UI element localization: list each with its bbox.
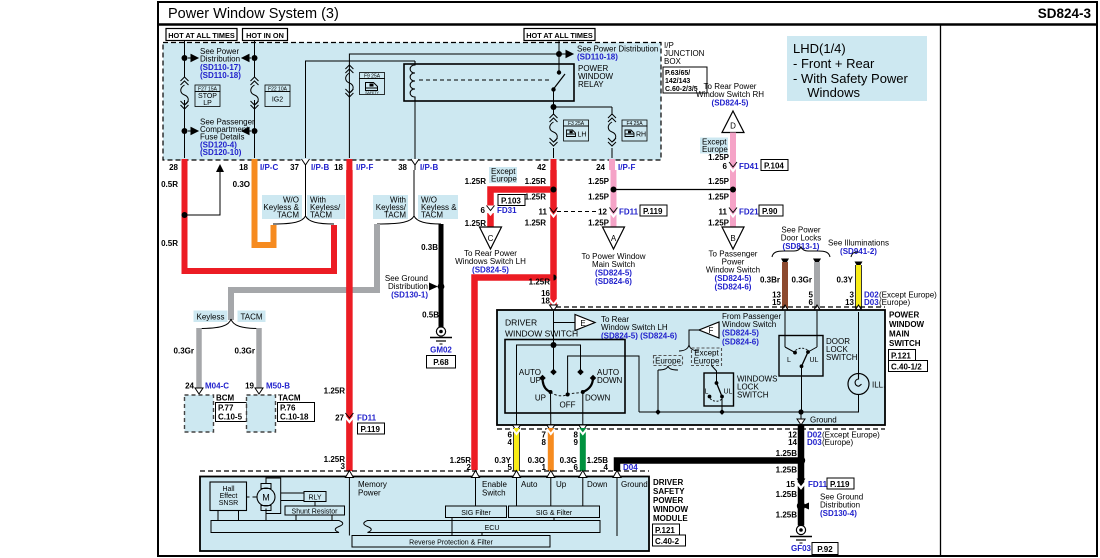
red branch to C <box>491 190 554 206</box>
triangle A <box>603 227 625 249</box>
node wire1 lower <box>182 128 188 134</box>
svg-text:MODULE: MODULE <box>653 514 688 523</box>
dashed link red to pink <box>557 211 597 213</box>
svg-text:Keyless: Keyless <box>196 313 224 322</box>
svg-text:0.5R: 0.5R <box>161 180 178 189</box>
fuse F4 box RH <box>622 120 647 141</box>
svg-text:0.3Y: 0.3Y <box>837 276 854 285</box>
svg-text:1.25P: 1.25P <box>588 193 610 202</box>
gray wire 0.3Gr option <box>231 224 377 320</box>
module entry arrows <box>345 471 621 478</box>
svg-text:ILL.: ILL. <box>872 381 885 390</box>
see illuminations <box>828 239 889 257</box>
pin 24 I/P-F pink stub <box>609 159 615 170</box>
fuse F3 symbol <box>550 114 558 146</box>
yellow wire 0.3Y <box>855 262 863 313</box>
fuse F22 symbol <box>251 77 259 109</box>
svg-text:I/P-C: I/P-C <box>260 163 278 172</box>
svg-text:0.3Gr: 0.3Gr <box>235 347 255 356</box>
Except Europe dashed label <box>692 348 722 366</box>
TACM highlight <box>238 311 266 323</box>
LHD info box <box>787 36 927 101</box>
svg-text:0.3Gr: 0.3Gr <box>792 276 812 285</box>
svg-text:WINDOW SWITCH: WINDOW SWITCH <box>505 329 578 339</box>
arrow left at wire2 lower <box>242 128 251 135</box>
svg-text:M04-C: M04-C <box>205 382 229 391</box>
HOT IN ON box <box>243 29 288 41</box>
dashed line below main switch <box>497 428 885 430</box>
svg-text:1.25B: 1.25B <box>776 449 798 458</box>
arrow to node <box>429 283 438 291</box>
inner rotary switch box <box>505 340 625 414</box>
node pink A <box>611 187 617 193</box>
svg-text:1.25P: 1.25P <box>708 177 730 186</box>
svg-text:(SD941-2): (SD941-2) <box>840 247 877 256</box>
internal wires module <box>218 478 617 537</box>
svg-text:6: 6 <box>481 206 486 215</box>
svg-text:0.3Br: 0.3Br <box>760 276 780 285</box>
svg-text:0.5B: 0.5B <box>422 311 439 320</box>
svg-text:HOT AT ALL TIMES: HOT AT ALL TIMES <box>168 31 235 40</box>
windows lock switch contacts <box>705 381 733 412</box>
text windows lock switch <box>737 375 777 400</box>
svg-text:1.25P: 1.25P <box>708 153 730 162</box>
connector FD11 pink <box>598 205 667 217</box>
svg-text:ECU: ECU <box>485 525 500 532</box>
pin 18 I/P-F red stub <box>346 159 352 170</box>
svg-text:POWER: POWER <box>889 311 919 320</box>
BCM dashed box <box>185 395 214 432</box>
svg-text:9: 9 <box>574 438 579 447</box>
svg-text:F: F <box>709 326 714 335</box>
text to rear power windows switch LH <box>455 249 526 275</box>
svg-text:DOWN: DOWN <box>597 376 623 385</box>
door lock to ground <box>801 366 803 412</box>
orange wire up <box>547 425 555 471</box>
RLY box <box>281 492 326 507</box>
svg-text:TACM: TACM <box>278 394 301 403</box>
svg-text:P.119: P.119 <box>361 425 381 434</box>
I/P JUNCTION BOX label <box>664 41 705 66</box>
D02 D03 labels bottom <box>807 431 880 448</box>
svg-text:M: M <box>262 493 270 503</box>
text to rear power window switch RH <box>696 82 764 108</box>
HOT AT ALL TIMES box 2 <box>524 29 595 41</box>
svg-text:38: 38 <box>398 163 407 172</box>
svg-text:(SD824-5): (SD824-5) <box>472 266 509 275</box>
triangle E <box>575 315 595 331</box>
rotary labels <box>519 368 623 410</box>
svg-text:C: C <box>488 234 494 243</box>
svg-text:I/P-B: I/P-B <box>420 163 438 172</box>
svg-text:STOP: STOP <box>198 93 217 100</box>
see ground distribution SD130-1 <box>385 274 428 300</box>
black link wire module ground to main ground <box>617 461 801 472</box>
svg-text:(SD824-5): (SD824-5) <box>722 329 759 338</box>
wire line B coil feed from pin 37 <box>306 61 416 158</box>
svg-text:SD824-3: SD824-3 <box>1038 6 1092 21</box>
svg-text:24: 24 <box>185 382 194 391</box>
svg-text:B: B <box>730 234 735 243</box>
svg-text:TACM: TACM <box>384 211 406 220</box>
rotary contacts <box>550 369 557 376</box>
text see power distribution (SD110-18) <box>577 45 658 62</box>
off wire <box>568 356 639 412</box>
brown wire 0.3Br <box>781 259 789 313</box>
svg-text:1.25B: 1.25B <box>776 490 798 499</box>
bus junction diamonds <box>655 409 661 415</box>
windows lock switch box <box>704 373 734 406</box>
option label W/O Keyless & TACM (4) <box>418 195 458 220</box>
Europe dashed label <box>654 356 683 366</box>
shunt resistor box <box>285 506 345 515</box>
wire pin38 down to split <box>413 170 415 217</box>
svg-text:DRIVER: DRIVER <box>653 478 683 487</box>
fuse F27 box <box>195 85 220 107</box>
svg-text:24: 24 <box>596 163 605 172</box>
text to passenger power window switch <box>706 250 760 292</box>
svg-text:GF03: GF03 <box>791 544 812 553</box>
svg-text:HOT IN ON: HOT IN ON <box>246 31 284 40</box>
svg-text:1.25R: 1.25R <box>324 387 346 396</box>
ecu left box torn <box>211 521 343 533</box>
pin 37 I/P-B <box>302 159 310 165</box>
pink wire D column <box>730 133 736 228</box>
text to power window main switch <box>581 252 645 286</box>
connector M50-B <box>255 388 263 394</box>
svg-text:POWER: POWER <box>653 496 683 505</box>
brace door locks <box>772 247 830 257</box>
europe branch wire <box>658 366 678 412</box>
up/down drop wires <box>550 392 552 425</box>
black ground wire from main switch <box>798 425 805 526</box>
svg-text:(SD110-18): (SD110-18) <box>577 53 618 62</box>
svg-text:A: A <box>611 234 617 243</box>
svg-text:0.3Gr: 0.3Gr <box>174 347 194 356</box>
svg-text:UL: UL <box>724 389 733 396</box>
svg-text:P.121: P.121 <box>891 351 911 360</box>
svg-text:SAFETY: SAFETY <box>653 487 685 496</box>
driver safety power window module box <box>200 477 649 552</box>
fuse F9 box with safety window icon <box>360 73 385 95</box>
connector FD31 <box>481 195 525 216</box>
split brace pin37 <box>273 216 334 224</box>
svg-text:1.25R: 1.25R <box>465 177 487 186</box>
svg-text:(SD110-18): (SD110-18) <box>200 71 241 80</box>
svg-text:FD31: FD31 <box>497 206 517 215</box>
svg-text:Up: Up <box>556 480 567 489</box>
svg-text:42: 42 <box>537 163 546 172</box>
svg-text:Hall: Hall <box>222 486 235 493</box>
svg-text:1.25R: 1.25R <box>525 177 547 186</box>
wire relay to F3 to pin 42 <box>553 107 555 115</box>
svg-text:6: 6 <box>723 162 728 171</box>
svg-text:RELAY: RELAY <box>578 80 604 89</box>
ecu box <box>364 521 600 533</box>
svg-text:P.76: P.76 <box>280 404 296 413</box>
svg-text:C.10-18: C.10-18 <box>280 413 309 422</box>
sig filter box <box>446 506 507 518</box>
entry arrows brown gray yellow <box>781 305 863 312</box>
svg-text:C.10-5: C.10-5 <box>218 413 243 422</box>
svg-text:UP: UP <box>530 376 541 385</box>
svg-text:(SD120-10): (SD120-10) <box>200 148 242 157</box>
hall effect snsr box <box>210 482 247 511</box>
svg-text:Europe: Europe <box>491 175 517 184</box>
brace illuminations <box>851 252 859 257</box>
relay dashed link <box>419 79 549 81</box>
svg-text:142/143: 142/143 <box>665 78 690 85</box>
except europe branch wire <box>712 366 717 383</box>
svg-text:SWITCH: SWITCH <box>889 339 921 348</box>
connector 11 on red 42 <box>539 208 558 217</box>
svg-text:FD11: FD11 <box>357 414 377 423</box>
svg-text:(SD824-6): (SD824-6) <box>595 277 632 286</box>
svg-text:I/P-B: I/P-B <box>311 163 329 172</box>
svg-text:SNSR: SNSR <box>219 500 238 507</box>
option label With Keyless/TACM (3) <box>373 195 408 220</box>
door lock switch box <box>779 336 823 377</box>
svg-text:P.90: P.90 <box>762 207 778 216</box>
wire from HOT IN ON through fuse F22 <box>254 41 256 78</box>
label DRIVER WINDOW SWITCH <box>505 318 578 339</box>
svg-text:Power Window System (3): Power Window System (3) <box>168 6 339 22</box>
svg-text:P.119: P.119 <box>830 480 850 489</box>
wire pin37 down to split <box>305 170 307 217</box>
lamp wires <box>858 312 860 374</box>
svg-text:P.119: P.119 <box>643 207 663 216</box>
connector FD41 <box>723 160 788 172</box>
node wire2 lower <box>252 128 258 134</box>
svg-text:- Front + Rear: - Front + Rear <box>793 56 875 71</box>
wire from HOT1 through fuse F27 <box>184 41 186 78</box>
rotary dashed arc <box>551 392 583 396</box>
ILL lamp <box>848 374 885 395</box>
svg-text:0.3O: 0.3O <box>233 180 250 189</box>
arrow see power distribution <box>188 55 198 62</box>
text from passenger window switch <box>722 312 781 347</box>
svg-text:15: 15 <box>786 480 795 489</box>
svg-text:Reverse Protection & Filter: Reverse Protection & Filter <box>409 539 493 546</box>
node wire2 top <box>252 55 258 61</box>
svg-text:27: 27 <box>335 414 344 423</box>
svg-text:(SD824-6): (SD824-6) <box>722 338 759 347</box>
svg-text:P.104: P.104 <box>764 161 784 170</box>
svg-text:SAFETY: SAFETY <box>365 91 379 95</box>
gray wire keyless branch <box>196 328 202 391</box>
svg-text:(SD130-4): (SD130-4) <box>820 509 857 518</box>
arrow see power distribution right <box>562 51 573 58</box>
relay switch <box>551 54 565 107</box>
svg-text:37: 37 <box>290 163 299 172</box>
svg-text:13: 13 <box>845 298 854 307</box>
svg-text:D: D <box>730 122 736 131</box>
module pin labels <box>358 480 648 498</box>
svg-text:Switch: Switch <box>482 489 506 498</box>
Keyless highlight <box>194 311 228 323</box>
svg-text:19: 19 <box>245 382 254 391</box>
svg-text:L: L <box>787 357 791 364</box>
svg-text:1.25R: 1.25R <box>525 219 547 228</box>
svg-text:Down: Down <box>587 480 607 489</box>
svg-text:P.92: P.92 <box>817 545 833 554</box>
svg-text:UL: UL <box>810 357 819 364</box>
connector into main switch <box>550 300 558 305</box>
svg-text:SIG & Filter: SIG & Filter <box>536 510 573 517</box>
split brace keyless/TACM <box>199 319 259 329</box>
connector M04-C <box>195 388 203 394</box>
dashed line above module <box>200 470 649 472</box>
pin 42 red stub <box>551 159 557 170</box>
svg-text:D03: D03 <box>864 298 879 307</box>
pin 28 red stub <box>182 159 188 170</box>
red branch to enable switch <box>475 278 554 471</box>
connector FD11 black 15 <box>786 478 854 489</box>
I/P junction box (dashed) <box>163 43 661 161</box>
gray wire TACM branch <box>256 328 262 391</box>
ground drop from bus <box>797 412 837 425</box>
option label With Keyless/TACM (2) <box>307 195 345 220</box>
svg-text:4: 4 <box>508 438 513 447</box>
svg-text:TACM: TACM <box>421 211 443 220</box>
node below relay <box>551 104 557 110</box>
D02 D03 labels <box>864 291 937 308</box>
svg-text:14: 14 <box>788 438 797 447</box>
svg-text:Auto: Auto <box>521 480 538 489</box>
wire red entry to bus and E <box>553 311 555 345</box>
node red 42 top <box>551 187 557 193</box>
svg-text:E: E <box>580 319 585 328</box>
TACM dashed box <box>247 395 276 432</box>
svg-text:Europe: Europe <box>694 357 720 366</box>
title separator line <box>158 23 1097 26</box>
fuse F9 symbol <box>345 65 353 97</box>
red wire 42 column <box>550 170 557 307</box>
svg-text:L: L <box>705 389 709 396</box>
svg-text:TACM: TACM <box>240 313 262 322</box>
text POWER WINDOW RELAY <box>578 64 614 89</box>
svg-text:Ground: Ground <box>810 416 837 425</box>
red segment to triangle C <box>487 213 494 228</box>
door lock wires down <box>784 311 786 347</box>
node red 42 bottom <box>551 275 557 281</box>
wire to fuse F4 <box>554 106 613 108</box>
svg-text:P.77: P.77 <box>218 404 234 413</box>
svg-text:(SD824-5): (SD824-5) <box>712 99 749 108</box>
svg-text:Power: Power <box>358 489 381 498</box>
svg-text:28: 28 <box>169 163 178 172</box>
svg-text:BCM: BCM <box>216 394 235 403</box>
see power door locks <box>781 226 821 252</box>
svg-text:LP: LP <box>203 100 212 107</box>
wire from HOT2 to relay <box>558 41 560 55</box>
svg-text:1.25P: 1.25P <box>588 219 610 228</box>
svg-text:C.40-1/2: C.40-1/2 <box>891 362 922 371</box>
svg-text:1.25B: 1.25B <box>776 466 798 475</box>
inner right divider <box>940 25 942 557</box>
svg-text:FD11: FD11 <box>619 208 639 217</box>
svg-text:1.25P: 1.25P <box>708 219 730 228</box>
svg-text:WINDOW: WINDOW <box>653 505 689 514</box>
motor M <box>247 478 281 514</box>
svg-text:18: 18 <box>541 297 550 306</box>
fuse F3 box LH <box>564 120 589 141</box>
wire coil to pin 38 <box>414 101 416 159</box>
svg-text:0.3B: 0.3B <box>421 243 438 252</box>
pin 38 I/P-B <box>411 159 419 165</box>
fuse F22 box <box>265 85 290 107</box>
rotary top bus <box>517 345 581 425</box>
svg-text:1.25P: 1.25P <box>588 177 610 186</box>
jumper arrow up into I/P box <box>185 170 221 215</box>
svg-text:Ground: Ground <box>621 480 648 489</box>
dashed connector line above main switch <box>556 306 885 308</box>
reverse protection box <box>352 536 550 548</box>
svg-text:RLY: RLY <box>308 494 321 501</box>
svg-text:C.60-2/3/5: C.60-2/3/5 <box>665 86 698 93</box>
POWER WINDOW MAIN SWITCH box <box>497 310 885 425</box>
triangle F <box>699 322 719 338</box>
svg-text:12: 12 <box>598 208 607 217</box>
svg-text:P.103: P.103 <box>501 196 521 205</box>
svg-text:RH: RH <box>636 132 646 139</box>
fuse F4 symbol <box>608 114 616 146</box>
triangle B <box>722 227 744 249</box>
svg-text:1.25R: 1.25R <box>525 193 547 202</box>
node black ground <box>797 456 805 464</box>
link line pink A to pink D <box>614 189 734 191</box>
svg-text:TACM: TACM <box>310 211 332 220</box>
triangle C <box>480 227 502 249</box>
svg-text:DRIVER: DRIVER <box>505 318 537 328</box>
arrow right at lower node <box>188 128 198 135</box>
svg-text:SIG Filter: SIG Filter <box>461 510 491 517</box>
red wire 0.5R from pin 28 <box>185 170 335 271</box>
svg-text:DOWN: DOWN <box>585 394 611 403</box>
svg-text:LHD(1/4): LHD(1/4) <box>793 41 846 56</box>
gray wire 0.3Gr door lock <box>813 259 821 313</box>
orange wire 0.3O from pin 18 <box>255 170 274 245</box>
text see passenger compartment <box>200 118 255 158</box>
node on 0.5R <box>182 212 188 218</box>
svg-text:(Europe): (Europe) <box>879 298 910 307</box>
svg-text:11: 11 <box>539 208 548 217</box>
svg-text:C.40-2: C.40-2 <box>655 537 680 546</box>
svg-text:6: 6 <box>809 298 814 307</box>
svg-text:FD21: FD21 <box>739 208 759 217</box>
svg-text:18: 18 <box>334 163 343 172</box>
svg-text:LH: LH <box>578 132 587 139</box>
svg-text:OFF: OFF <box>560 401 576 410</box>
connector FD21 <box>719 205 783 217</box>
node see ground distribution <box>797 502 805 510</box>
text door lock switch <box>826 337 858 362</box>
svg-text:SWITCH: SWITCH <box>737 391 769 400</box>
svg-text:I/P-F: I/P-F <box>356 163 373 172</box>
text see power distribution <box>200 47 241 80</box>
fuse F27 symbol <box>181 77 189 109</box>
svg-text:Europe: Europe <box>655 357 681 366</box>
svg-text:TACM: TACM <box>277 211 299 220</box>
Except Europe highlight (42 column) <box>489 167 517 184</box>
arrow left to wire2 <box>242 55 251 62</box>
svg-text:UP: UP <box>535 394 546 403</box>
svg-text:1.25P: 1.25P <box>708 193 730 202</box>
svg-text:MAIN: MAIN <box>889 330 910 339</box>
svg-text:8: 8 <box>542 438 547 447</box>
svg-text:GM02: GM02 <box>430 346 452 355</box>
svg-text:Windows: Windows <box>800 85 860 100</box>
